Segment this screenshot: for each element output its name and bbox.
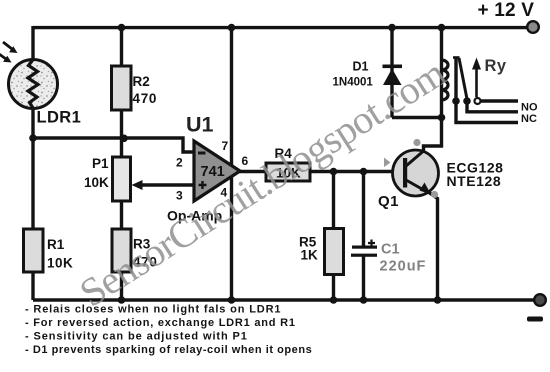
- resistor R1: [24, 229, 44, 272]
- relay NC contact dot: [463, 97, 471, 105]
- wire R2/P1/R3 column: [120, 26, 123, 300]
- wire R5 branch: [332, 172, 335, 301]
- op-amp U1: [194, 141, 240, 201]
- svg-text:10K: 10K: [84, 175, 109, 190]
- wire relay NO line: [481, 99, 519, 102]
- capacitor C1: [351, 240, 377, 257]
- ground minus sign: [527, 317, 543, 322]
- svg-text:C1: C1: [381, 242, 400, 258]
- gray mark emitter: [431, 191, 438, 198]
- svg-text:U1: U1: [186, 113, 214, 137]
- wire relay pole to common line: [456, 58, 518, 123]
- wire D1 to coil bottom: [392, 116, 442, 119]
- wire top +12V rail: [33, 26, 528, 29]
- wire C1 top lead: [362, 172, 365, 248]
- svg-text:470: 470: [133, 91, 158, 106]
- junction ground / R5: [330, 296, 338, 304]
- resistor R3: [112, 229, 131, 272]
- transistor Q1: [393, 150, 439, 196]
- resistor R2: [112, 66, 132, 110]
- wire Q1 emitter to ground rail: [429, 193, 438, 301]
- svg-text:3: 3: [176, 189, 183, 203]
- svg-text:Q1: Q1: [378, 193, 399, 210]
- gray mark base: [384, 158, 391, 168]
- light arrow 1: [3, 42, 18, 53]
- svg-text:220uF: 220uF: [380, 259, 427, 275]
- svg-text:LDR1: LDR1: [37, 109, 82, 127]
- potentiometer P1: [113, 157, 143, 201]
- Ry arrow: [472, 58, 481, 98]
- svg-text:1N4001: 1N4001: [333, 77, 374, 89]
- wire D1 branch: [390, 26, 393, 118]
- svg-text:- D1 prevents sparking of rela: - D1 prevents sparking of relay-coil whe…: [25, 344, 312, 356]
- gray mark collector: [413, 139, 420, 146]
- junction output / R5: [330, 168, 338, 176]
- wire left branch (LDR/R1 column): [31, 26, 34, 300]
- svg-text:R2: R2: [133, 74, 150, 89]
- svg-text:P1: P1: [92, 156, 109, 171]
- terminal +12V: [527, 21, 539, 33]
- junction node A / LDR: [29, 134, 37, 142]
- junction node A / R2-P1: [120, 135, 128, 143]
- resistor R4: [266, 163, 310, 181]
- relay coil Ry: [442, 60, 449, 100]
- relay NO contact circle: [475, 98, 481, 104]
- wire P1 wiper to op-amp pin3: [140, 183, 195, 186]
- junction top rail / D1: [388, 24, 396, 32]
- svg-text:D1: D1: [353, 60, 369, 74]
- junction top rail / relay coil: [438, 24, 446, 32]
- svg-text:- For reversed action, exchang: - For reversed action, exchange LDR1 and…: [25, 317, 296, 329]
- svg-text:- Sensitivity can be adjusted: - Sensitivity can be adjusted with P1: [25, 331, 248, 343]
- svg-text:- Relais closes when no light: - Relais closes when no light fals on LD…: [25, 304, 281, 316]
- wire node A horizontal (LDR/R2 junction to op-amp pin2): [33, 138, 195, 152]
- junction D1 / coil: [438, 114, 446, 122]
- svg-text:7: 7: [222, 139, 229, 153]
- svg-text:741: 741: [201, 164, 225, 180]
- light arrow 2: [0, 54, 12, 63]
- svg-text:NO: NO: [521, 102, 538, 114]
- svg-text:+ 12 V: + 12 V: [478, 0, 535, 21]
- svg-text:NC: NC: [521, 113, 537, 125]
- wire op-amp output to R4 and base of Q1: [239, 170, 404, 173]
- terminal ground: [534, 294, 546, 306]
- wire relay coil column: [440, 26, 443, 118]
- relay pole contact dot: [452, 97, 460, 105]
- LDR1 body: [9, 60, 58, 109]
- svg-text:NTE128: NTE128: [447, 173, 502, 189]
- junction ground / R3: [118, 296, 126, 304]
- resistor R5: [325, 229, 344, 275]
- svg-text:Ry: Ry: [485, 57, 507, 75]
- junction ground / op-amp pin4: [228, 296, 236, 304]
- junction output / C1: [360, 168, 368, 176]
- svg-text:10K: 10K: [47, 256, 73, 271]
- relay pivot tick: [453, 56, 460, 59]
- wire C1 bottom lead: [362, 255, 365, 300]
- junction ground / emitter: [434, 296, 442, 304]
- junction ground / C1: [360, 296, 368, 304]
- wire op-amp supply column (pin7/pin4): [230, 26, 233, 300]
- junction top rail / op-amp supply: [228, 24, 236, 32]
- wire relay NC line: [467, 101, 518, 112]
- wire coil junction to Q1 collector: [424, 118, 442, 153]
- wire bottom ground rail: [33, 298, 536, 301]
- diode D1: [383, 65, 403, 86]
- svg-text:2: 2: [176, 156, 183, 170]
- junction top rail / R2: [118, 24, 126, 32]
- svg-text:1K: 1K: [301, 248, 319, 263]
- svg-text:R1: R1: [47, 237, 65, 252]
- relay contact arm: [459, 58, 467, 99]
